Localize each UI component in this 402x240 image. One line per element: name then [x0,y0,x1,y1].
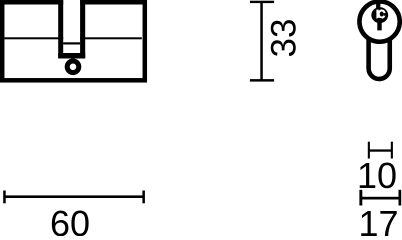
dimension 33 top cap [250,1,274,3]
dimension 10 left tick [368,142,370,159]
cam ring [67,61,79,73]
keyway stem [377,18,381,30]
svg-text:60: 60 [50,203,90,236]
dimension 33 bottom cap [250,79,274,82]
dimension 17 right tick [399,190,402,206]
keyway white curl ring [379,10,385,17]
cylinder body outline (side view rectangle) [2,2,145,80]
keyway connector [376,3,380,10]
dimension 17 left tick [359,190,362,206]
cam inner line [63,42,80,44]
dimension 60 left tick [3,191,5,204]
cam channel interior [63,0,80,53]
parting line [4,37,141,39]
dimension line 33 [260,2,263,81]
dimension line 10 [369,149,392,151]
profile circle (front view) [359,1,399,41]
dimension 60 right tick [142,191,145,204]
cam channel right wall [80,0,85,58]
cam channel bottom bar [58,53,85,59]
dimension line 60 [5,195,144,198]
svg-text:10: 10 [357,155,397,196]
profile body U [369,38,390,79]
keyway white slot [376,10,378,19]
dimension 10 right tick [391,142,393,159]
dimension line 17 [361,197,400,200]
keyway black bridge [384,13,387,16]
cam channel left wall [58,0,63,58]
svg-text:33: 33 [265,19,304,58]
svg-text:17: 17 [358,203,398,236]
keyway disc [371,7,388,23]
